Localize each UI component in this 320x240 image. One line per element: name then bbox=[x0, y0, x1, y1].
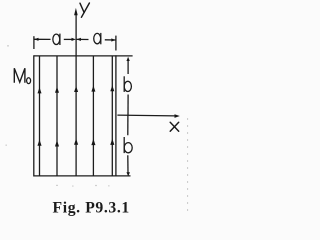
svg-text:Fig. P9.3.1: Fig. P9.3.1 bbox=[53, 200, 130, 217]
